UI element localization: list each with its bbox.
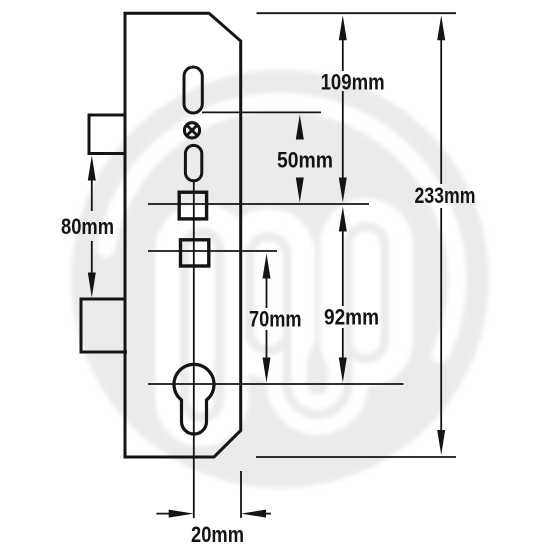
svg-text:50mm: 50mm <box>277 147 333 172</box>
plate outline <box>125 13 241 457</box>
ref line top <box>257 12 457 14</box>
ref line bottom <box>256 456 456 458</box>
svg-text:80mm: 80mm <box>61 214 114 239</box>
ref line oblong bottom <box>202 111 321 113</box>
arrow 92mm up <box>339 207 347 232</box>
arrow 92mm down <box>339 358 347 383</box>
svg-text:70mm: 70mm <box>249 307 302 332</box>
dim 109mm line <box>342 40 344 180</box>
dim 70mm line <box>266 278 268 359</box>
watermark ring <box>106 102 457 354</box>
arrow 80mm up <box>88 156 96 181</box>
arrow 233mm down <box>437 430 445 455</box>
svg-text:109mm: 109mm <box>321 70 385 95</box>
spindle square 1 <box>179 192 206 219</box>
watermark logo disc <box>71 70 489 488</box>
arrow 109mm up <box>339 15 347 40</box>
watermark W mark gray contour lines <box>185 227 386 418</box>
protrusion upper-left <box>89 115 125 154</box>
dim 80mm line <box>91 180 93 273</box>
arrow 50mm down <box>296 178 304 203</box>
dim 233mm line <box>440 40 442 432</box>
spindle square 2 <box>181 240 209 266</box>
svg-text:92mm: 92mm <box>324 305 379 330</box>
arrow 109mm down <box>339 178 347 203</box>
ref line cylinder centre <box>148 383 404 385</box>
arrow 70mm up <box>263 254 271 279</box>
euro cylinder cutout <box>174 364 214 434</box>
tick 20mm right <box>240 471 242 518</box>
protrusion lower-left <box>81 299 127 352</box>
centre line vertical <box>193 181 195 518</box>
watermark W mark white casings <box>185 227 386 418</box>
arrow 70mm down <box>263 358 271 383</box>
slot upper oblong <box>184 67 202 113</box>
dim 20mm left arrow <box>156 513 173 515</box>
arrow 50mm up <box>296 115 304 140</box>
dim 92mm line <box>342 231 344 358</box>
dim 20mm right arrow <box>264 513 271 515</box>
slot small oblong <box>185 145 201 180</box>
svg-text:20mm: 20mm <box>191 522 244 547</box>
ref line square1 <box>148 203 369 205</box>
arrow 233mm up <box>437 15 445 40</box>
screw circle-x <box>184 123 199 138</box>
ref line square2 <box>148 250 277 252</box>
svg-text:233mm: 233mm <box>415 183 476 208</box>
arrow 80mm down <box>88 273 96 298</box>
